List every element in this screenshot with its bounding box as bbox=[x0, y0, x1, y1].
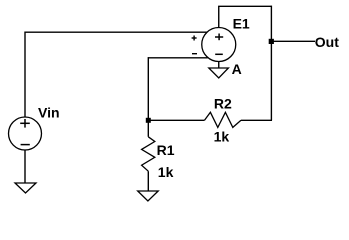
ground below R1 bbox=[138, 191, 159, 201]
wire E1 bottom stub to node A ground bbox=[218, 61, 220, 68]
Vin minus sign bbox=[21, 144, 30, 146]
wire R1 bottom to ground bbox=[147, 171, 149, 191]
junction dot at Out node bbox=[269, 39, 274, 44]
label R2 value 1k bbox=[214, 129, 230, 145]
label R1 value 1k bbox=[158, 164, 174, 180]
svg-text:1k: 1k bbox=[214, 129, 230, 145]
op-amp E1 VCVS circle bbox=[202, 28, 236, 62]
svg-text:R1: R1 bbox=[157, 142, 175, 158]
label R2 bbox=[214, 95, 232, 111]
wire from E1 minus control down to R1 junction bbox=[147, 57, 149, 120]
svg-text:A: A bbox=[232, 61, 242, 77]
label Vin bbox=[38, 104, 60, 120]
ground node A below E1 bbox=[209, 68, 229, 78]
E1 control minus polarity mark bbox=[192, 53, 197, 55]
label E1 bbox=[233, 16, 250, 32]
svg-text:Vin: Vin bbox=[38, 104, 60, 120]
wire E1 minus control pin stub bbox=[148, 57, 208, 59]
resistor R1 zigzag bbox=[142, 137, 155, 171]
resistor R2 zigzag bbox=[205, 112, 242, 127]
E1 internal plus sign bbox=[215, 34, 223, 41]
wire Vin bottom stub to ground bbox=[24, 150, 26, 183]
wire left vertical from top corner down to Vin top bbox=[24, 32, 26, 118]
svg-text:1k: 1k bbox=[158, 164, 174, 180]
label node A bbox=[232, 61, 242, 77]
svg-text:Out: Out bbox=[315, 34, 339, 50]
wire E1 output top stub bbox=[218, 6, 220, 28]
wire R1 top from junction to zigzag bbox=[147, 120, 149, 137]
wire R2 right to right vertical branch bbox=[241, 119, 272, 121]
wire top loop horizontal to right branch bbox=[218, 5, 271, 7]
wire Out from junction to label bbox=[271, 40, 315, 42]
junction dot at R1 top node bbox=[146, 118, 151, 123]
label R1 bbox=[157, 142, 175, 158]
E1 control plus polarity mark bbox=[192, 36, 197, 41]
svg-text:E1: E1 bbox=[233, 16, 250, 32]
wire right vertical from top loop down to R2 right bbox=[270, 6, 272, 121]
Vin plus sign bbox=[20, 119, 30, 128]
wire R2 left from junction to zigzag bbox=[148, 119, 204, 121]
E1 internal minus sign bbox=[215, 53, 223, 55]
label node Out bbox=[315, 34, 339, 50]
wire top control from (25,32) to E1 plus input pin bbox=[25, 31, 208, 33]
svg-text:R2: R2 bbox=[214, 95, 232, 111]
voltage source V1 Vin circle bbox=[9, 117, 42, 150]
ground below Vin bbox=[15, 183, 36, 193]
